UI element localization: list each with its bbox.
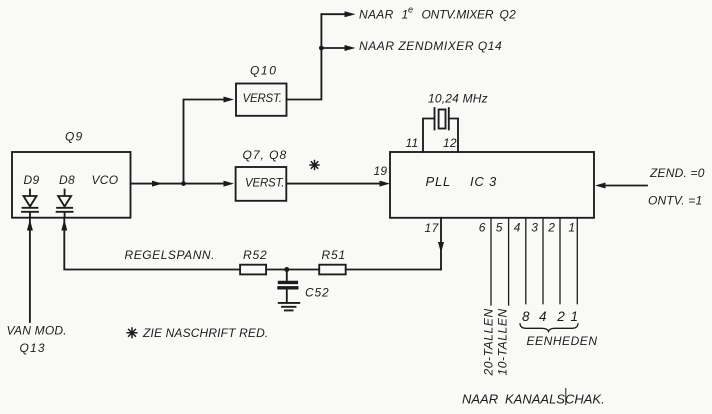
- svg-text:PLL: PLL: [426, 174, 452, 189]
- curly brace under 8 4 2 1: [520, 324, 578, 332]
- svg-text:2: 2: [556, 309, 565, 324]
- ground: [279, 303, 300, 311]
- svg-text:4: 4: [514, 220, 521, 234]
- wire junction A up and right to Q10 input: [184, 97, 235, 184]
- wire R52 back to VCO (control voltage): [61, 218, 240, 270]
- wire node C to R52: [266, 269, 287, 271]
- svg-text:4: 4: [539, 309, 547, 324]
- svg-text:2: 2: [547, 220, 555, 234]
- svg-text:D8: D8: [59, 173, 75, 187]
- svg-text:R51: R51: [322, 248, 346, 262]
- svg-text:17: 17: [425, 221, 440, 235]
- svg-text:NAAR ZENDMIXER Q14: NAAR ZENDMIXER Q14: [359, 39, 502, 53]
- svg-text:12: 12: [443, 136, 457, 150]
- svg-text:20-TALLEN: 20-TALLEN: [482, 308, 496, 376]
- varicap diode D8: [57, 190, 73, 218]
- wire R51 to node C: [287, 269, 319, 271]
- svg-text:EENHEDEN: EENHEDEN: [527, 334, 598, 348]
- svg-text:1: 1: [571, 309, 579, 324]
- binary weight labels 8 4 2 1: [522, 309, 578, 324]
- footnote: ZIE NASCHRIFT RED.: [127, 326, 268, 340]
- svg-text:VERST.: VERST.: [243, 93, 282, 105]
- svg-text:Q7, Q8: Q7, Q8: [243, 148, 288, 162]
- PLL pin 17 wire down with arrow: [425, 218, 445, 270]
- node C junction dot: [284, 267, 289, 272]
- svg-text:D9: D9: [24, 173, 40, 187]
- svg-text:Q13: Q13: [20, 341, 46, 355]
- wire VAN MOD. Q13 input: [7, 218, 67, 355]
- PLL pin 6 line: [479, 218, 491, 305]
- svg-text:11: 11: [406, 136, 419, 150]
- svg-text:6: 6: [479, 220, 486, 234]
- svg-text:ONTV.MIXER: ONTV.MIXER: [422, 8, 494, 22]
- svg-text:NAAR: NAAR: [359, 8, 394, 22]
- svg-text:ZIE NASCHRIFT RED.: ZIE NASCHRIFT RED.: [142, 326, 268, 340]
- svg-text:ZEND. =0: ZEND. =0: [649, 166, 705, 180]
- svg-text:e: e: [408, 5, 413, 15]
- svg-text:Q2: Q2: [500, 8, 517, 22]
- control input arrow ZEND/ONTV: [595, 166, 705, 208]
- svg-text:REGELSPANN.: REGELSPANN.: [125, 248, 216, 262]
- amplifier block Q7,Q8 VERST.: [236, 148, 288, 201]
- wire Q10 output up to branches: [287, 14, 322, 99]
- label NAAR KANAALSCHAK.: [462, 389, 605, 407]
- svg-text:ONTV. =1: ONTV. =1: [648, 193, 702, 207]
- wire arrow to NAAR 1e ONTV.MIXER Q2: [321, 5, 516, 22]
- node A junction dot: [181, 181, 186, 186]
- varicap diode D9: [22, 190, 38, 218]
- svg-text:Q9: Q9: [65, 130, 83, 144]
- wire arrow to NAAR ZENDMIXER Q14: [321, 39, 502, 53]
- VCO block Q9: [12, 130, 131, 218]
- crystal 10,24 MHz: [406, 92, 488, 152]
- PLL pin 4 line: [514, 218, 526, 304]
- wire Q7,Q8 output to PLL pin 19: [287, 164, 391, 186]
- svg-text:10,24 MHz: 10,24 MHz: [428, 92, 488, 106]
- svg-text:8: 8: [522, 309, 530, 324]
- wire loop filter line (REGELSPANN.): [125, 248, 442, 269]
- svg-text:KANAALSCHAK.: KANAALSCHAK.: [505, 391, 605, 406]
- capacitor C52: [279, 270, 329, 303]
- asterisk note mark: [310, 161, 319, 170]
- svg-text:1: 1: [568, 220, 575, 234]
- resistor R52: [240, 248, 267, 275]
- node B junction dot on vertical wire: [319, 46, 324, 51]
- svg-text:5: 5: [496, 220, 503, 234]
- wire junction A to Q7,Q8 input: [184, 181, 235, 187]
- svg-text:C52: C52: [305, 285, 329, 299]
- svg-text:10-TALLEN: 10-TALLEN: [496, 308, 510, 375]
- wire VCO output to junction A: [131, 181, 184, 187]
- PLL pin 2 line: [547, 218, 560, 304]
- svg-text:VCO: VCO: [92, 173, 119, 187]
- svg-text:IC 3: IC 3: [470, 174, 497, 189]
- PLL IC3 block: [390, 152, 594, 218]
- svg-text:19: 19: [374, 164, 388, 178]
- svg-text:VERST.: VERST.: [245, 177, 284, 189]
- svg-text:VAN MOD.: VAN MOD.: [7, 324, 67, 338]
- resistor R51: [319, 248, 346, 275]
- svg-text:3: 3: [531, 220, 538, 234]
- svg-text:R52: R52: [243, 248, 267, 262]
- svg-text:NAAR: NAAR: [462, 391, 498, 406]
- PLL pin 5 line: [496, 218, 509, 305]
- PLL pin 1 line: [568, 218, 577, 304]
- amplifier block Q10 VERST.: [236, 64, 287, 116]
- svg-text:Q10: Q10: [250, 64, 277, 78]
- PLL pin 3 line: [531, 218, 543, 304]
